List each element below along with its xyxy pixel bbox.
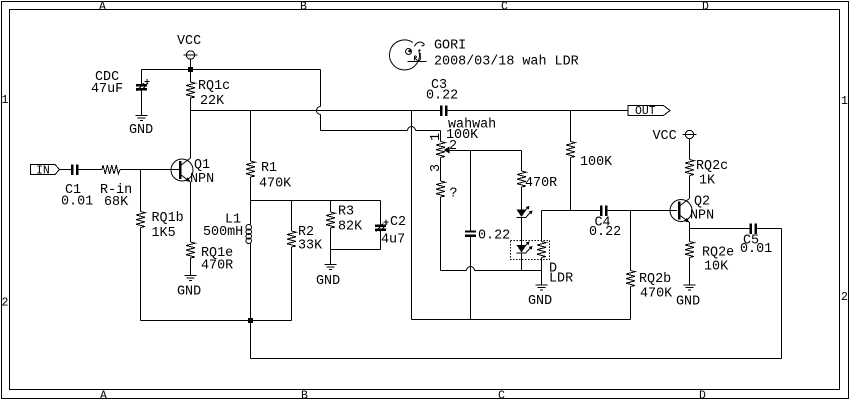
svg-text:OUT: OUT bbox=[635, 105, 656, 118]
svg-text:2: 2 bbox=[841, 291, 848, 304]
inductor L1 500mH bbox=[246, 201, 252, 321]
ground below LDR bbox=[536, 271, 548, 291]
node junction dot bottom bbox=[248, 318, 253, 323]
photoresistor LDR bbox=[537, 211, 546, 271]
resistor RQ2b 470K bbox=[626, 211, 635, 320]
capacitor C2 4u7 polarized bbox=[375, 201, 389, 250]
svg-text:1: 1 bbox=[429, 133, 444, 141]
wire left bottom horizontal bbox=[141, 320, 292, 322]
svg-text:D: D bbox=[699, 390, 706, 400]
wire C1 to R-in bbox=[79, 169, 103, 171]
svg-text:GND: GND bbox=[676, 295, 700, 310]
svg-text:GND: GND bbox=[316, 274, 340, 289]
svg-text:Q2: Q2 bbox=[694, 195, 710, 210]
capacitor 0.22 vertical bbox=[465, 151, 476, 320]
svg-text:C: C bbox=[498, 390, 505, 400]
ground below RQ2e bbox=[684, 285, 696, 290]
resistor R3 82K bbox=[326, 201, 335, 265]
svg-text:LDR: LDR bbox=[549, 272, 573, 287]
ground below RQ1e bbox=[185, 276, 197, 281]
resistor unknown question bbox=[436, 158, 445, 271]
capacitor C3 0.22 bbox=[440, 106, 448, 117]
capacitor C4 0.22 bbox=[600, 206, 608, 217]
wire emitter to C5 bbox=[690, 228, 750, 230]
wire R-in to Q1 base bbox=[120, 169, 179, 171]
svg-text:C2: C2 bbox=[390, 215, 406, 230]
svg-text:22K: 22K bbox=[200, 94, 225, 109]
svg-text:100K: 100K bbox=[580, 155, 613, 170]
logo GORI face bbox=[389, 40, 426, 70]
svg-text:4u7: 4u7 bbox=[381, 233, 405, 248]
svg-text:RQ2e: RQ2e bbox=[702, 246, 734, 261]
led D1 bbox=[517, 206, 533, 245]
wire ldr top to q2 base bbox=[542, 210, 601, 212]
svg-text:1K: 1K bbox=[699, 174, 716, 189]
svg-text:470K: 470K bbox=[640, 287, 673, 302]
wire Q2 emitter bbox=[689, 223, 691, 242]
wire long bottom horizontal bbox=[251, 358, 782, 360]
svg-text:1: 1 bbox=[841, 95, 848, 108]
transistor Q1 NPN bbox=[171, 158, 193, 182]
wire bus to bottom vertical bbox=[411, 111, 413, 320]
resistor RQ1c 22K bbox=[186, 70, 195, 111]
port IN bbox=[31, 164, 60, 177]
capacitor CDC 47uF polarized bbox=[136, 79, 150, 91]
ground below R3 bbox=[325, 265, 337, 270]
wire R1 bottom bus bbox=[251, 200, 381, 202]
VCC symbol top left bbox=[184, 51, 198, 70]
wire C4 to Q2 base bbox=[608, 210, 678, 212]
wire pot top lead bbox=[440, 131, 442, 142]
svg-text:RQ1b: RQ1b bbox=[152, 211, 184, 226]
svg-text:0.01: 0.01 bbox=[61, 195, 93, 210]
wire R3 C2 bottom bbox=[331, 249, 381, 251]
resistor 470R led chain bbox=[517, 151, 526, 210]
svg-text:B: B bbox=[301, 390, 308, 400]
svg-text:B: B bbox=[300, 1, 307, 14]
resistor RQ2c 1K bbox=[685, 160, 694, 199]
svg-text:0.22: 0.22 bbox=[426, 89, 458, 104]
svg-text:RQ2c: RQ2c bbox=[696, 159, 728, 174]
resistor R2 33K bbox=[287, 201, 296, 321]
svg-text:2: 2 bbox=[2, 297, 9, 310]
svg-text:2008/03/18 wah LDR: 2008/03/18 wah LDR bbox=[434, 55, 579, 70]
resistor R1 470K bbox=[246, 111, 255, 201]
svg-text:0.22: 0.22 bbox=[478, 229, 510, 244]
wire C5 right down bbox=[757, 229, 782, 359]
svg-text:GORI: GORI bbox=[434, 39, 466, 54]
wire right bottom horizontal bbox=[412, 319, 631, 321]
capacitor C5 0.01 bbox=[750, 224, 758, 235]
svg-text:470K: 470K bbox=[259, 177, 292, 192]
svg-text:33K: 33K bbox=[298, 239, 323, 254]
wire CDC bottom lead bbox=[141, 91, 143, 116]
resistor R-in 68K horizontal bbox=[102, 165, 120, 174]
svg-text:C: C bbox=[501, 1, 508, 14]
transistor Q2 NPN bbox=[670, 199, 692, 223]
svg-text:GND: GND bbox=[177, 285, 201, 300]
svg-text:1K5: 1K5 bbox=[152, 226, 176, 241]
svg-text:D: D bbox=[702, 1, 709, 14]
resistor RQ1e 470R bbox=[186, 242, 195, 275]
wire VCC to pot vertical with hop bbox=[317, 70, 321, 131]
wire CDC top lead bbox=[141, 70, 143, 85]
wire Q1 collector bbox=[190, 111, 192, 159]
port OUT bbox=[628, 105, 670, 118]
wire junction down bbox=[250, 321, 252, 359]
wire C3 to OUT bbox=[448, 110, 629, 112]
svg-text:A: A bbox=[99, 1, 106, 14]
resistor 100K right bbox=[566, 111, 575, 211]
wire IN to C1 bbox=[60, 169, 72, 171]
svg-text:R1: R1 bbox=[261, 161, 277, 176]
svg-text:NPN: NPN bbox=[690, 209, 714, 224]
svg-text:500mH: 500mH bbox=[203, 225, 243, 240]
svg-text:3: 3 bbox=[429, 164, 444, 172]
svg-text:RQ1c: RQ1c bbox=[198, 79, 230, 94]
svg-text:0.22: 0.22 bbox=[589, 225, 621, 240]
capacitor C1 0.01 bbox=[71, 165, 79, 176]
svg-text:1: 1 bbox=[2, 94, 9, 107]
potentiometer wahwah 100K bbox=[436, 142, 522, 158]
wire pot-1 horizontal with hop bbox=[321, 127, 441, 131]
wire Q1 emitter bbox=[190, 182, 192, 242]
svg-text:68K: 68K bbox=[104, 195, 129, 210]
resistor RQ2e 10K bbox=[685, 242, 694, 285]
svg-text:10K: 10K bbox=[704, 260, 729, 275]
wire question to gnd horizontal with hop bbox=[441, 267, 542, 271]
resistor RQ1b 1K5 bbox=[136, 170, 145, 321]
svg-text:Q1: Q1 bbox=[194, 158, 210, 173]
svg-text:0.01: 0.01 bbox=[740, 242, 772, 257]
wire main bus horizontal bbox=[191, 110, 441, 112]
svg-text:47uF: 47uF bbox=[91, 82, 123, 97]
svg-text:VCC: VCC bbox=[177, 34, 201, 49]
led D2 in optocoupler bbox=[517, 242, 533, 271]
svg-text:IN: IN bbox=[36, 164, 50, 177]
svg-text:82K: 82K bbox=[338, 220, 363, 235]
optocoupler dotted box bbox=[511, 241, 550, 260]
svg-text:VCC: VCC bbox=[653, 129, 677, 144]
svg-text:GND: GND bbox=[129, 123, 153, 138]
ground below CDC bbox=[136, 116, 148, 121]
svg-text:RQ2b: RQ2b bbox=[639, 272, 671, 287]
svg-text:?: ? bbox=[450, 187, 458, 202]
svg-text:470R: 470R bbox=[525, 176, 557, 191]
svg-text:NPN: NPN bbox=[190, 172, 214, 187]
svg-text:2: 2 bbox=[449, 139, 457, 154]
wire VCC top horizontal bbox=[142, 69, 321, 71]
svg-text:A: A bbox=[100, 390, 107, 400]
svg-text:R3: R3 bbox=[338, 205, 354, 220]
VCC symbol right bbox=[683, 130, 697, 159]
node VCC junction dot bbox=[188, 67, 193, 72]
svg-text:GND: GND bbox=[528, 294, 552, 309]
svg-text:470R: 470R bbox=[201, 259, 233, 274]
